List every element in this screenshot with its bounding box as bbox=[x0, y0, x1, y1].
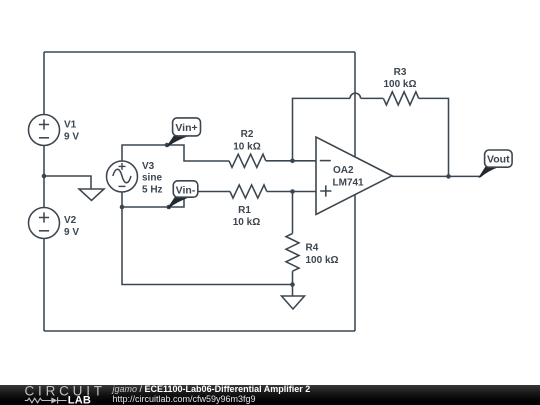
svg-text:9 V: 9 V bbox=[64, 132, 79, 143]
svg-text:Vin+: Vin+ bbox=[175, 122, 197, 134]
svg-text:Vout: Vout bbox=[487, 154, 510, 166]
svg-text:100 kΩ: 100 kΩ bbox=[306, 255, 339, 266]
svg-text:10 kΩ: 10 kΩ bbox=[233, 217, 260, 228]
svg-text:100 kΩ: 100 kΩ bbox=[383, 79, 416, 90]
svg-text:OA2: OA2 bbox=[333, 165, 354, 176]
svg-text:V3: V3 bbox=[142, 161, 155, 172]
svg-text:10 kΩ: 10 kΩ bbox=[233, 142, 260, 153]
svg-text:R2: R2 bbox=[241, 129, 254, 140]
svg-text:5 Hz: 5 Hz bbox=[142, 185, 163, 196]
svg-text:LAB: LAB bbox=[68, 394, 91, 405]
svg-text:9 V: 9 V bbox=[64, 227, 79, 238]
svg-text:V2: V2 bbox=[64, 215, 77, 226]
svg-text:Vin-: Vin- bbox=[176, 184, 196, 196]
svg-text:LM741: LM741 bbox=[333, 178, 365, 189]
svg-text:R4: R4 bbox=[306, 243, 319, 254]
svg-text:sine: sine bbox=[142, 173, 162, 184]
svg-text:R3: R3 bbox=[394, 67, 407, 78]
svg-text:R1: R1 bbox=[238, 205, 251, 216]
svg-text:V1: V1 bbox=[64, 120, 77, 131]
